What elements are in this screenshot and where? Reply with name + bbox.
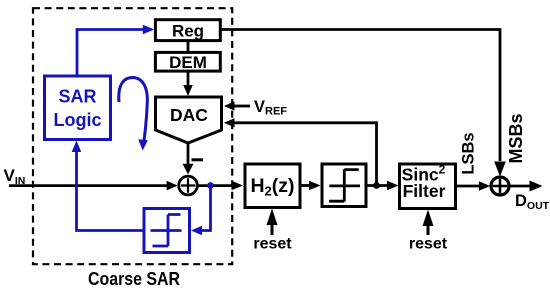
arrowhead into quantizer bbox=[309, 181, 321, 191]
comparator Q1 bbox=[144, 209, 190, 253]
reset input H2(z) bbox=[253, 209, 292, 253]
svg-text:DOUT: DOUT bbox=[515, 192, 550, 212]
arrowhead into summer S2 bbox=[479, 181, 490, 191]
svg-text:Filter: Filter bbox=[403, 181, 446, 201]
svg-text:MSBs: MSBs bbox=[506, 113, 526, 163]
wire node N1 to comparator bbox=[198, 186, 211, 231]
node N1 junction after summer S1 bbox=[207, 182, 214, 189]
svg-text:VREF: VREF bbox=[254, 98, 287, 118]
svg-text:DEM: DEM bbox=[169, 53, 207, 72]
dashed boundary Coarse SAR bbox=[33, 8, 232, 264]
arrowhead DOUT bbox=[530, 181, 543, 192]
arrowhead DAC to summer S1 bbox=[183, 164, 194, 175]
wire VREF into DAC bbox=[234, 105, 250, 108]
svg-text:VIN: VIN bbox=[4, 166, 26, 187]
wire H2(z) to quantizer bbox=[300, 184, 310, 187]
arrowhead DEM to DAC bbox=[183, 85, 193, 96]
summer S1 bbox=[179, 176, 198, 195]
wire VIN input bbox=[9, 184, 167, 187]
quantizer Q2 bbox=[322, 164, 366, 207]
arrowhead into SAR Logic bbox=[72, 141, 82, 153]
block SAR Logic U1 bbox=[45, 76, 111, 140]
block Reg bbox=[155, 20, 220, 41]
block H2(z) bbox=[245, 164, 300, 208]
wire quantizer feedback to DAC bbox=[234, 123, 377, 184]
svg-text:reset: reset bbox=[409, 236, 448, 253]
svg-text:DAC: DAC bbox=[170, 105, 208, 125]
arrowhead MSB into summer S2 bbox=[494, 162, 506, 177]
svg-text:Reg: Reg bbox=[172, 22, 204, 41]
arrowhead feedback into DAC bbox=[224, 118, 235, 127]
arrowhead SAR Logic to Reg bbox=[143, 25, 155, 35]
iteration loop arrow bbox=[119, 78, 148, 151]
wire Reg to DEM bbox=[187, 41, 190, 53]
wire comparator to SAR Logic bbox=[77, 152, 145, 231]
arrowhead into Sinc2 filter bbox=[387, 181, 399, 191]
arrowhead into summer S1 bbox=[167, 181, 178, 191]
wire SAR Logic to Reg bbox=[77, 30, 144, 77]
arrowhead VREF into DAC bbox=[224, 101, 235, 110]
wire quantizer to Sinc2 filter bbox=[366, 184, 388, 187]
svg-text:H2(z): H2(z) bbox=[250, 175, 294, 199]
minus sign at DAC input of summer S1 bbox=[192, 158, 204, 161]
arrowhead into comparator bbox=[191, 226, 202, 236]
block Sinc2 Filter bbox=[400, 163, 456, 209]
wire DAC to summer S1 bbox=[187, 143, 190, 165]
block DEM bbox=[155, 52, 220, 71]
svg-text:Coarse SAR: Coarse SAR bbox=[88, 269, 180, 289]
reset input Sinc2 filter bbox=[409, 210, 448, 253]
block DAC bbox=[156, 97, 222, 143]
node N2 junction before Sinc2 filter bbox=[373, 182, 380, 189]
svg-text:reset: reset bbox=[253, 236, 292, 253]
wire DOUT output bbox=[509, 185, 530, 188]
wire DEM to DAC bbox=[187, 71, 190, 86]
svg-text:LSBs: LSBs bbox=[460, 132, 478, 174]
wire summer S1 to H2(z) bbox=[198, 184, 232, 187]
wire Sinc2 filter to summer S2 bbox=[456, 185, 480, 188]
svg-text:Logic: Logic bbox=[54, 110, 102, 130]
svg-text:SAR: SAR bbox=[58, 86, 96, 106]
wire Reg to summer S2 MSB path bbox=[220, 30, 500, 162]
arrowhead into H2(z) bbox=[232, 181, 244, 191]
summer S2 bbox=[491, 177, 509, 195]
